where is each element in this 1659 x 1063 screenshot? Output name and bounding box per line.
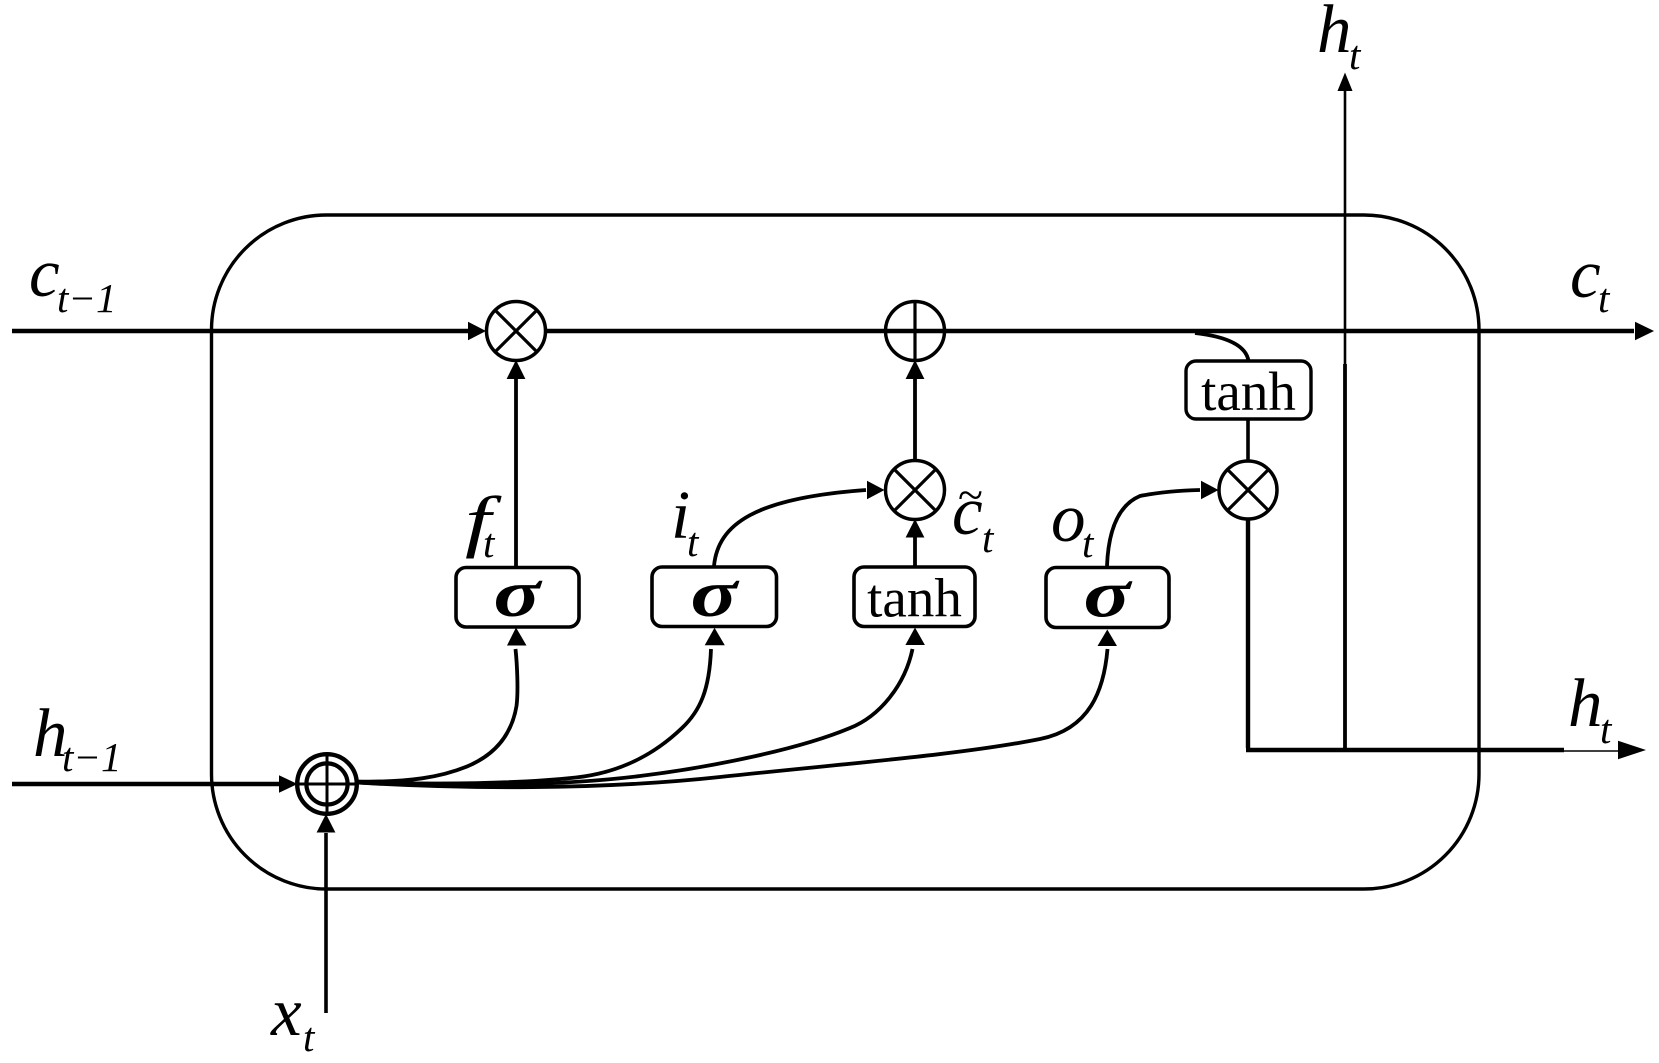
sigma box output gate [1046,568,1169,628]
svg-text:x: x [270,974,302,1050]
wire from multiply node 2 up to add node [913,378,917,460]
wire h_{t-1} input line [12,782,279,786]
svg-text:c: c [29,235,60,311]
wire o_t curve from sigma box 4 into multiply node 3 [1107,490,1200,566]
arrowhead h_t top [1338,73,1353,92]
wire curve input node to output sigma [357,649,1108,787]
tanh box candidate [854,567,975,627]
svg-text:t: t [303,1014,316,1060]
wire branch from c line down into tanh box right [1195,333,1249,361]
svg-text:tanh: tanh [867,568,962,629]
input junction node (double circle with plus) [297,754,357,814]
arrowhead x_t into input junction [317,814,336,833]
arrowhead tanh into multiply node 2 [906,519,925,538]
wire x_t input vertical [324,833,328,1013]
wire tanh box to multiply node 2 [913,536,917,567]
wire tanh box down to multiply node 3 [1246,419,1250,461]
svg-text:t: t [982,515,995,561]
svg-text:t: t [1600,706,1613,752]
arrowhead o into multiply node 3 [1201,481,1219,500]
svg-text:σ: σ [1084,557,1133,631]
arrowhead into add node [906,360,925,379]
arrowhead c_t output right [1635,322,1654,341]
arrowhead into output sigma bottom [1098,630,1118,647]
multiply node 3 (output) [1219,461,1277,519]
svg-text:t−1: t−1 [62,734,122,780]
wire h output: multiply node 3 down then right [1246,519,1564,750]
svg-text:h: h [1568,665,1603,741]
svg-text:t: t [1349,32,1362,78]
arrowhead into multiply node 1 [468,322,486,341]
arrowhead i into multiply node 2 [867,481,885,500]
wire h_t vertical branch up (thin upper part) [1344,90,1347,364]
svg-text:σ: σ [494,557,543,631]
wire h_t vertical branch (thick lower part) [1343,364,1347,750]
arrowhead into forget sigma bottom [507,628,527,646]
wire curve input node to input sigma [357,649,711,784]
wire c line mid and right segment [545,329,1634,334]
arrowhead into tanh bottom [905,628,925,646]
tanh box right (cell output activation) [1186,361,1311,419]
wire curve input node to tanh box [357,649,913,785]
wire i_t curve from sigma box 2 into multiply node 2 [714,490,866,566]
wire curve input node to forget sigma [357,649,517,782]
svg-text:t: t [1598,275,1611,321]
svg-text:tanh: tanh [1201,361,1296,422]
multiply node 2 (candidate x input gate) [886,461,945,520]
wire h output thin segment [1564,750,1620,752]
arrowhead into input sigma bottom [705,628,725,646]
arrowhead f into multiply node [507,360,526,379]
svg-text:~: ~ [958,469,983,520]
sigma box forget gate [456,568,579,628]
svg-text:o: o [1051,480,1086,556]
svg-text:h: h [1317,0,1352,67]
arrowhead h_{t-1} into input junction [279,775,298,793]
wire cell-state line c (horizontal) [12,329,468,334]
svg-text:σ: σ [691,557,740,631]
wire f_t vertical from sigma box to multiply node [514,378,518,567]
multiply node forget (circle-cross) [487,302,546,361]
sigma box input gate [652,567,777,627]
svg-text:t−1: t−1 [57,275,117,321]
LSTM cell body rounded rectangle [212,215,1480,889]
svg-text:c: c [1570,236,1601,312]
add node (circle-plus) on c line [886,302,945,361]
arrowhead h_t output right [1618,741,1646,759]
